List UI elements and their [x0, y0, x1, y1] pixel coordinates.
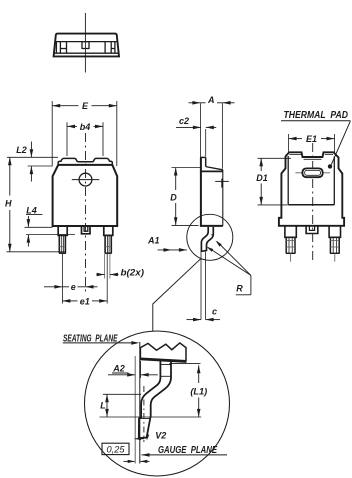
- detail body fragment: [140, 343, 186, 363]
- dim D1 label: [256, 173, 268, 183]
- detail indicator circle: [187, 214, 233, 260]
- front view left lead: [58, 227, 67, 253]
- side lead bend tick: [211, 234, 214, 236]
- svg-text:b4: b4: [80, 122, 91, 132]
- detail connector line: [153, 258, 202, 331]
- right view left lead: [285, 227, 296, 254]
- dim H label: [5, 199, 12, 209]
- dim V2 arrows: [135, 434, 150, 440]
- right view centerline: [312, 143, 314, 263]
- svg-text:E: E: [82, 101, 89, 111]
- detail foot centerline: [143, 386, 145, 442]
- svg-text:A: A: [207, 95, 215, 105]
- top view center pad square: [82, 42, 89, 49]
- svg-text:b(2x): b(2x): [121, 268, 145, 279]
- svg-text:GAUGE PLANE: GAUGE PLANE: [158, 445, 217, 456]
- dim E1 line: [289, 137, 335, 141]
- svg-text:L4: L4: [26, 205, 37, 215]
- dim D line: [174, 168, 178, 226]
- top view centerline: [84, 13, 86, 73]
- dim A1 line: [158, 248, 187, 252]
- oval slot: [302, 168, 322, 177]
- svg-text:L2: L2: [16, 145, 27, 155]
- lead shoulder reference line: [26, 234, 75, 236]
- top view band bottom edge: [54, 52, 118, 54]
- thermal pad label: [281, 110, 351, 121]
- dim A2 line: [108, 373, 158, 377]
- thermal pad leader line: [331, 121, 350, 164]
- dim R label: [236, 284, 243, 294]
- dim L label: [100, 401, 106, 411]
- dim L top reference: [103, 393, 141, 395]
- dim L line: [105, 394, 109, 417]
- detail lead bend: [139, 378, 171, 439]
- dim A2 label: [112, 364, 129, 374]
- dim L1 label: [190, 387, 207, 397]
- seating plane label: [63, 333, 118, 344]
- dim b4 extension lines: [67, 122, 103, 156]
- svg-text:A2: A2: [112, 364, 125, 374]
- dim E label: [82, 101, 89, 111]
- dim c2 line: [176, 126, 216, 130]
- dim A extension lines: [201, 103, 223, 169]
- svg-text:H: H: [5, 199, 12, 209]
- svg-text:E1: E1: [306, 134, 317, 144]
- gauge plane line: [134, 356, 136, 464]
- dim L2 label: [16, 145, 27, 155]
- svg-text:D: D: [170, 193, 177, 203]
- svg-text:c2: c2: [179, 116, 189, 126]
- dim V2 label: [155, 431, 166, 441]
- dim b4 line: [67, 125, 103, 129]
- dim b line: [97, 273, 119, 277]
- svg-text:0,25: 0,25: [107, 444, 126, 454]
- svg-text:(L1): (L1): [190, 387, 207, 397]
- detail view circle: [85, 331, 230, 476]
- dim A1 label: [147, 235, 160, 245]
- front view body outline: [53, 165, 118, 226]
- detail bottom reference line: [100, 416, 202, 418]
- svg-text:c: c: [212, 307, 217, 317]
- dim e label: [71, 282, 76, 292]
- right view pad inner top lines: [290, 155, 334, 160]
- svg-text:e: e: [71, 282, 76, 292]
- dim A label: [207, 95, 215, 105]
- right view body outline: [279, 152, 344, 226]
- dim b4 label: [80, 122, 91, 132]
- top view left lead cell: [60, 42, 66, 54]
- front view tab profile: [58, 158, 112, 164]
- right view right lead: [329, 227, 340, 254]
- dim e1 line: [62, 299, 107, 303]
- side view body: [200, 170, 223, 226]
- dim c label: [212, 307, 217, 317]
- dim L2 arrows: [30, 142, 34, 182]
- dim L4 label: [26, 205, 43, 215]
- side view lead: [201, 227, 213, 251]
- right lead center extension: [106, 254, 108, 304]
- dim b label: [121, 268, 145, 279]
- gauge plane leader: [142, 453, 228, 457]
- svg-text:R: R: [236, 284, 243, 294]
- dim E line: [52, 104, 117, 108]
- dim c2 extension line: [205, 129, 207, 157]
- front view centerline: [85, 133, 87, 293]
- dim E1 extension lines: [289, 134, 335, 152]
- dim b extension lines: [105, 254, 110, 279]
- right view center stub: [306, 227, 318, 234]
- svg-text:V2: V2: [155, 431, 166, 441]
- dim D label: [170, 193, 177, 203]
- seating plane line: [139, 342, 141, 464]
- svg-text:THERMAL PAD: THERMAL PAD: [284, 110, 349, 121]
- dim L1 line: [197, 365, 201, 417]
- dim E1 label: [306, 134, 317, 144]
- dim L4 arrows: [27, 216, 31, 247]
- dim 0,25 arrows: [124, 460, 150, 463]
- svg-text:L: L: [100, 401, 106, 411]
- dim c extension lines: [201, 252, 206, 320]
- thermal pad dot: [328, 164, 332, 168]
- front view right lead: [104, 227, 113, 253]
- svg-text:e1: e1: [80, 296, 90, 306]
- front view mounting hole circle: [72, 173, 100, 186]
- seating reference line front: [7, 251, 65, 253]
- right view pad inner rect: [288, 156, 334, 205]
- dim D extension lines: [172, 168, 201, 226]
- top view right end line: [114, 42, 116, 54]
- seating plane leader: [63, 341, 140, 345]
- dim R leader arrows: [207, 241, 251, 276]
- dim e1 label: [80, 296, 90, 306]
- svg-text:A1: A1: [147, 235, 160, 245]
- right view lead centerlines: [291, 254, 335, 262]
- dim H line: [8, 157, 12, 252]
- right view horizontal centerline: [295, 172, 330, 174]
- detail lead upper section: [160, 360, 171, 379]
- dim A line: [189, 101, 235, 105]
- dim A2 reference extension: [140, 361, 142, 378]
- body bottom reference line: [25, 226, 53, 228]
- top view body outline: [54, 34, 119, 57]
- dim c line: [187, 318, 221, 322]
- dim 0,25 box: [102, 443, 129, 454]
- gauge plane label: [158, 445, 217, 456]
- dim e line: [44, 285, 98, 289]
- top view left end line: [55, 42, 57, 54]
- dim E extension lines: [52, 101, 117, 166]
- tab top reference line: [7, 156, 58, 158]
- top view right lead cell: [105, 42, 115, 54]
- thermal pad level tick: [215, 179, 229, 188]
- side view tab: [200, 157, 223, 172]
- dim D1 extension lines: [258, 158, 292, 205]
- dim c2 label: [179, 116, 189, 126]
- left lead center extension: [61, 254, 63, 304]
- dim R bracket: [236, 275, 251, 294]
- svg-text:D1: D1: [256, 173, 268, 183]
- front view center stub: [82, 227, 91, 234]
- dim D1 line: [259, 158, 263, 205]
- body top reference line: [28, 165, 53, 167]
- dim L1 top reference: [169, 362, 200, 364]
- top view band top edge: [55, 41, 118, 43]
